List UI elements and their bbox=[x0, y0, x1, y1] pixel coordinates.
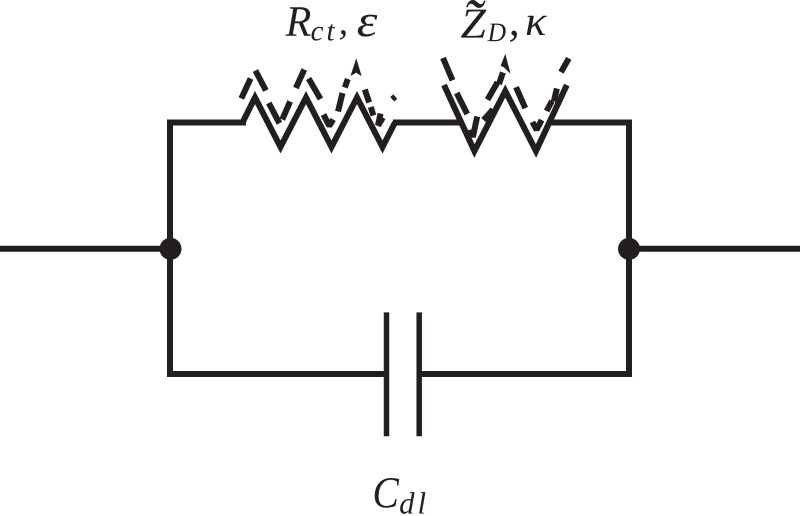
arrowhead on R_ct dashed zigzag bbox=[351, 58, 362, 76]
wire right lead bbox=[629, 246, 800, 252]
wire left lead bbox=[0, 246, 170, 252]
arrowhead on Z_D dashed W bbox=[501, 54, 511, 74]
Warburg element Z_D dashed perturbation W bbox=[443, 58, 569, 137]
resistor R_ct solid zigzag bbox=[243, 98, 396, 148]
wire bottom-right segment bbox=[419, 371, 632, 377]
capacitor C_dl left plate bbox=[384, 312, 390, 436]
wire bottom-left segment bbox=[167, 371, 387, 377]
wire right vertical bbox=[626, 120, 632, 378]
label R_ct, epsilon bbox=[285, 7, 377, 40]
wire top-left segment bbox=[167, 120, 246, 126]
wire top-middle segment bbox=[393, 120, 462, 126]
capacitor C_dl right plate bbox=[416, 312, 422, 436]
node B right junction dot bbox=[618, 238, 640, 260]
wire top-right segment bbox=[549, 120, 632, 126]
node A left junction dot bbox=[160, 238, 182, 260]
resistor R_ct dashed perturbation zigzag bbox=[241, 70, 395, 127]
Warburg element Z_D solid W bbox=[444, 85, 567, 151]
label C_dl bbox=[375, 478, 426, 514]
wire left vertical bbox=[167, 120, 173, 378]
label Z_D tilde, kappa bbox=[461, 0, 547, 42]
